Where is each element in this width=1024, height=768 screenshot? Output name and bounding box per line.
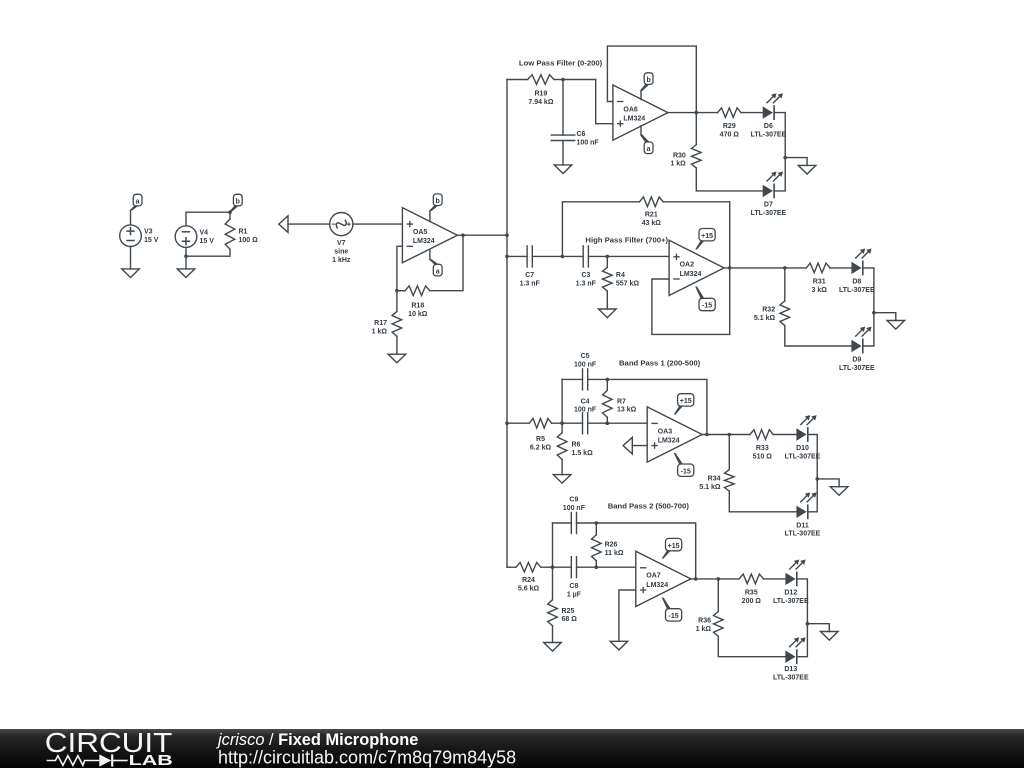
svg-text:OA3: OA3 [658, 428, 673, 435]
svg-text:LAB: LAB [129, 752, 173, 768]
svg-text:a: a [136, 198, 140, 205]
svg-text:LM324: LM324 [646, 582, 668, 589]
svg-text:R17: R17 [374, 320, 387, 327]
svg-text:LTL-307EE: LTL-307EE [785, 531, 821, 538]
svg-text:1 kΩ: 1 kΩ [372, 328, 388, 335]
svg-text:5.6 kΩ: 5.6 kΩ [518, 585, 540, 592]
svg-text:43 kΩ: 43 kΩ [642, 220, 662, 227]
svg-text:R31: R31 [813, 278, 826, 285]
svg-text:D8: D8 [852, 278, 861, 285]
svg-text:R1: R1 [239, 229, 248, 236]
svg-text:470 Ω: 470 Ω [720, 132, 740, 139]
svg-text:1 µF: 1 µF [567, 591, 582, 598]
svg-text:LTL-307EE: LTL-307EE [773, 598, 809, 605]
svg-text:1.3 nF: 1.3 nF [520, 281, 541, 288]
svg-text:LTL-307EE: LTL-307EE [751, 132, 787, 139]
svg-text:b: b [436, 198, 440, 205]
svg-text:LM324: LM324 [413, 238, 435, 245]
svg-text:13 kΩ: 13 kΩ [617, 407, 637, 414]
svg-text:C5: C5 [581, 353, 590, 360]
svg-text:11 kΩ: 11 kΩ [605, 550, 624, 557]
svg-text:LM324: LM324 [680, 271, 702, 278]
svg-text:OA5: OA5 [413, 229, 428, 236]
svg-text:1.3 nF: 1.3 nF [576, 281, 597, 288]
svg-text:R30: R30 [673, 152, 686, 159]
svg-text:5.1 kΩ: 5.1 kΩ [699, 484, 721, 491]
svg-text:R19: R19 [534, 91, 547, 98]
svg-text:R32: R32 [762, 307, 775, 314]
svg-text:R35: R35 [745, 589, 758, 596]
svg-text:R5: R5 [536, 436, 545, 443]
svg-text:5.1 kΩ: 5.1 kΩ [754, 315, 776, 322]
svg-text:LTL-307EE: LTL-307EE [839, 365, 875, 372]
svg-text:C7: C7 [525, 272, 534, 279]
svg-text:OA2: OA2 [680, 262, 695, 269]
svg-text:LM324: LM324 [658, 438, 680, 445]
svg-text:100 nF: 100 nF [563, 505, 586, 512]
svg-text:R18: R18 [411, 303, 424, 310]
svg-text:R6: R6 [572, 442, 581, 449]
svg-text:+15: +15 [701, 233, 713, 240]
svg-text:High Pass Filter (700+): High Pass Filter (700+) [585, 236, 668, 245]
svg-text:100 Ω: 100 Ω [239, 237, 259, 244]
svg-text:+15: +15 [668, 543, 680, 550]
svg-text:R25: R25 [562, 608, 575, 615]
svg-text:C3: C3 [581, 272, 590, 279]
svg-text:sine: sine [334, 248, 348, 255]
svg-text:6.2 kΩ: 6.2 kΩ [530, 444, 552, 451]
svg-text:a: a [647, 146, 651, 153]
svg-text:15 V: 15 V [200, 238, 215, 245]
svg-text:7.94 kΩ: 7.94 kΩ [528, 99, 553, 106]
svg-text:R7: R7 [617, 398, 626, 405]
svg-text:b: b [646, 77, 650, 84]
svg-text:15 V: 15 V [144, 237, 159, 244]
svg-text:100 nF: 100 nF [577, 139, 600, 146]
svg-text:100 nF: 100 nF [574, 407, 597, 414]
svg-text:R26: R26 [605, 542, 618, 549]
svg-text:a: a [436, 268, 440, 275]
svg-text:C4: C4 [581, 398, 590, 405]
svg-text:R33: R33 [756, 445, 769, 452]
svg-text:http://circuitlab.com/c7m8q79m: http://circuitlab.com/c7m8q79m84y58 [218, 748, 516, 768]
svg-text:1 kΩ: 1 kΩ [670, 161, 686, 168]
svg-text:R34: R34 [708, 475, 721, 482]
svg-text:LTL-307EE: LTL-307EE [751, 210, 787, 217]
svg-text:+15: +15 [680, 398, 692, 405]
svg-text:V4: V4 [200, 230, 209, 237]
svg-text:R21: R21 [645, 212, 658, 219]
svg-text:68 Ω: 68 Ω [562, 616, 578, 623]
svg-text:-15: -15 [669, 613, 679, 620]
svg-text:10 kΩ: 10 kΩ [408, 311, 428, 318]
svg-text:b: b [236, 198, 240, 205]
svg-text:LTL-307EE: LTL-307EE [839, 287, 875, 294]
svg-text:1.5 kΩ: 1.5 kΩ [572, 450, 594, 457]
svg-text:V7: V7 [337, 240, 346, 247]
svg-text:R29: R29 [723, 123, 736, 130]
svg-text:R4: R4 [616, 272, 625, 279]
svg-text:Band Pass 1 (200-500): Band Pass 1 (200-500) [619, 359, 701, 368]
svg-text:OA6: OA6 [623, 106, 638, 113]
svg-text:R36: R36 [698, 617, 711, 624]
svg-text:1 kHz: 1 kHz [332, 257, 351, 264]
svg-text:D13: D13 [784, 666, 797, 673]
svg-text:LM324: LM324 [623, 116, 645, 123]
svg-text:LTL-307EE: LTL-307EE [785, 453, 821, 460]
svg-text:D11: D11 [796, 522, 809, 529]
svg-text:Low Pass Filter (0-200): Low Pass Filter (0-200) [519, 58, 603, 67]
svg-text:OA7: OA7 [646, 573, 661, 580]
svg-text:3 kΩ: 3 kΩ [812, 287, 828, 294]
svg-text:1 kΩ: 1 kΩ [696, 626, 712, 633]
svg-text:LTL-307EE: LTL-307EE [773, 675, 809, 682]
svg-text:-15: -15 [702, 303, 712, 310]
svg-text:D10: D10 [796, 445, 809, 452]
svg-text:510 Ω: 510 Ω [753, 453, 773, 460]
svg-text:557 kΩ: 557 kΩ [616, 281, 640, 288]
svg-text:V3: V3 [144, 229, 153, 236]
svg-text:jcrisco / Fixed Microphone: jcrisco / Fixed Microphone [216, 731, 418, 749]
svg-text:100 nF: 100 nF [574, 361, 597, 368]
svg-text:D12: D12 [784, 589, 797, 596]
svg-text:C8: C8 [569, 583, 578, 590]
svg-text:Band Pass 2 (500-700): Band Pass 2 (500-700) [608, 502, 690, 511]
svg-text:-15: -15 [681, 468, 691, 475]
svg-text:D9: D9 [852, 357, 861, 364]
svg-text:200 Ω: 200 Ω [742, 598, 762, 605]
svg-text:R24: R24 [522, 577, 535, 584]
svg-text:C9: C9 [569, 497, 578, 504]
svg-text:D6: D6 [764, 123, 773, 130]
svg-text:D7: D7 [764, 201, 773, 208]
svg-text:C6: C6 [577, 131, 586, 138]
